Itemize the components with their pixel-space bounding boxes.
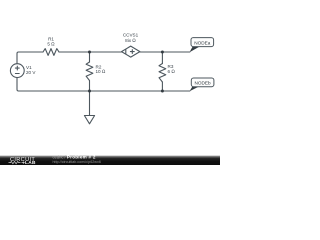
wire R2 upper lead (89, 52, 91, 62)
svg-text:5 Ω: 5 Ω (47, 42, 55, 47)
logo arrow (22, 162, 25, 164)
node junction top R3 (161, 51, 164, 54)
V1 plus sign (15, 66, 19, 70)
node junction bottom R3 (161, 90, 164, 93)
op-amp CCVS1 diamond body (122, 46, 140, 57)
logo resistor zigzag (9, 161, 21, 163)
wire R2 lower lead (89, 81, 91, 92)
svg-text:8ix Ω: 8ix Ω (125, 38, 136, 43)
svg-text:NODEb: NODEb (195, 81, 212, 86)
wire left vertical below V1 (17, 78, 19, 92)
wire ground stem (89, 91, 91, 116)
resistor R3 (159, 64, 166, 83)
CCVS1 minus mark (125, 49, 127, 53)
CCVS1 plus mark (130, 50, 134, 54)
resistor R1 (43, 49, 59, 56)
wire R1 to CCVS1 (59, 51, 122, 53)
node B flag NODEb (190, 78, 214, 91)
footer bar (0, 155, 220, 167)
wire R3 lower lead (161, 82, 163, 91)
svg-text:10 Ω: 10 Ω (96, 69, 106, 74)
svg-text:20 V: 20 V (26, 70, 36, 75)
node junction bottom R2 (88, 90, 91, 93)
V1 minus sign (15, 73, 19, 75)
voltage source V1 (10, 64, 24, 78)
svg-text:CCVS1: CCVS1 (123, 32, 139, 37)
wire R3 upper lead (161, 52, 163, 64)
svg-text:NODEa: NODEa (194, 41, 211, 46)
svg-text:6 Ω: 6 Ω (168, 69, 176, 74)
node junction top R2 (88, 51, 91, 54)
wire bottom (19, 90, 190, 92)
wire top-left segment (17, 52, 43, 64)
svg-text:cedric / Problem # 2: cedric / Problem # 2 (53, 155, 96, 160)
wire CCVS1 to node A (140, 51, 190, 53)
resistor R2 (86, 62, 93, 81)
svg-text:LAB: LAB (25, 160, 36, 165)
ground (84, 116, 94, 124)
svg-text:http://circuitlab.com/c/p62wx6: http://circuitlab.com/c/p62wx6 (53, 160, 101, 164)
node A flag NODEa (190, 38, 214, 53)
